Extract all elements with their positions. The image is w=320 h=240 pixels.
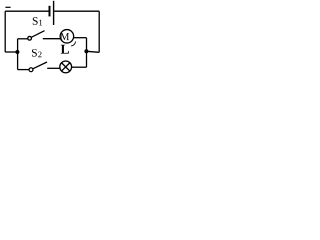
wire: left rail short horizontal to left junction dot — [5, 51, 17, 53]
minus sign (battery negative polarity mark) — [5, 6, 10, 8]
wire: bus horizontal from right junction dot to right rail — [87, 51, 100, 52]
battery: short thick negative plate — [49, 6, 51, 17]
wire: left vertical joining middle and bottom branches — [17, 39, 19, 70]
label M inside motor circle — [60, 33, 69, 40]
label L above lamp — [61, 45, 69, 54]
wire: switch S1 fixed contact stub to motor — [43, 38, 61, 40]
wire: bottom branch horizontal to switch S2 pivot — [18, 69, 30, 71]
wire: right vertical from motor corner down through dot to lamp corner — [86, 38, 88, 67]
wire: middle branch horizontal to switch S1 pivot — [18, 38, 28, 40]
switch S2 pivot circle — [29, 68, 33, 72]
label S1: subscript 1 — [39, 20, 42, 26]
lamp circle — [60, 61, 72, 73]
label S2: subscript 2 — [38, 52, 41, 58]
wire: top-right horizontal from battery positive plate to right rail — [54, 10, 99, 12]
switch S1 arm (open) — [31, 31, 44, 38]
left junction dot — [15, 50, 19, 54]
wire: left rail vertical from top-left corner down — [4, 11, 6, 52]
motor U1 circle — [60, 30, 74, 44]
switch S2 arm (open) — [33, 62, 47, 69]
lamp cross stroke 2 — [62, 63, 70, 71]
wire: top-left horizontal from left rail to battery negative plate — [5, 10, 48, 12]
right junction dot — [84, 49, 88, 53]
wire: right rail vertical down to bus level — [98, 11, 100, 52]
wire: switch S2 fixed contact stub to lamp — [47, 67, 60, 69]
label S2: letter S — [32, 49, 37, 57]
switch S1 pivot circle — [28, 36, 32, 40]
lamp cross stroke 1 — [62, 63, 70, 71]
battery: long thin positive plate — [53, 1, 55, 25]
wire: lamp right horizontal to right vertical — [72, 66, 87, 68]
ghost arc artifact at motor lower-right — [71, 42, 75, 46]
wire: motor right horizontal to right corner — [74, 37, 87, 39]
label S1: letter S — [33, 17, 38, 25]
